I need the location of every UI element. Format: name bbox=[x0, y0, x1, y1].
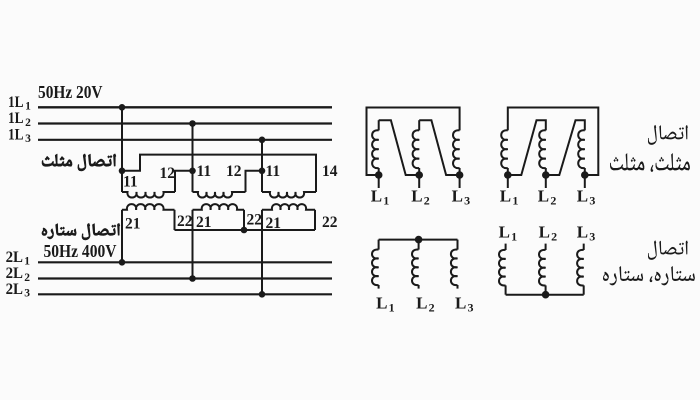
lead L1 of delta1 bbox=[378, 175, 380, 188]
coil W2 of delta1 bbox=[413, 130, 420, 168]
svg-text:12: 12 bbox=[226, 163, 242, 180]
wire star1 top bus bbox=[379, 239, 458, 241]
wire delta1 top link bbox=[367, 108, 460, 176]
wire 2L2 supply line bbox=[38, 277, 332, 279]
wire 1L3 supply line bbox=[38, 139, 332, 141]
label atesal mosalas (delta connection) bbox=[42, 154, 116, 171]
wire 2L1 supply line bbox=[38, 261, 332, 263]
coil W3 of delta1 bbox=[453, 130, 460, 168]
wire 22 of T2 down to neutral bus bbox=[243, 210, 245, 230]
coil W2 of star1 bbox=[418, 240, 420, 250]
lead L2 of delta2 bbox=[545, 175, 547, 188]
wire 1L1 supply line bbox=[38, 106, 332, 108]
svg-text:22: 22 bbox=[247, 212, 263, 229]
lead L3 of delta1 bbox=[459, 175, 461, 188]
coil W1 of star2 bbox=[505, 244, 507, 250]
node star point star2 bbox=[542, 291, 550, 299]
secondary winding T3 (terminals 21-22) bbox=[262, 204, 315, 210]
node L1 of delta1 bbox=[375, 171, 383, 179]
wire delta wrap from terminal 14 to node 11 of T1 bbox=[122, 155, 316, 192]
wire W1 top to L2 node (delta1) bbox=[379, 120, 420, 175]
node 11 of transformer T1 bbox=[119, 168, 126, 175]
node L2 of delta2 bbox=[542, 171, 550, 179]
primary winding T3 (terminals 11-14) bbox=[262, 192, 316, 198]
svg-text:L2: L2 bbox=[538, 187, 557, 208]
coil W3 of star1 bbox=[457, 240, 459, 250]
svg-text:11: 11 bbox=[266, 163, 281, 180]
wire from 1L2 down to primary U2 bbox=[192, 124, 194, 193]
svg-text:L3: L3 bbox=[577, 187, 596, 208]
lead L1 of delta2 bbox=[507, 175, 509, 188]
lead L2 of delta1 bbox=[418, 175, 420, 188]
secondary winding T2 (terminals 21-22) bbox=[193, 204, 245, 210]
wire 2L3 supply line bbox=[38, 293, 332, 295]
node star point junction bbox=[241, 227, 248, 234]
coil W2 of star2 bbox=[545, 244, 547, 250]
label atesal (connection) caption bottom bbox=[648, 240, 688, 259]
svg-text:L3: L3 bbox=[452, 187, 471, 208]
label atesal setare (star connection) bbox=[42, 223, 120, 239]
svg-text:L2: L2 bbox=[411, 187, 430, 208]
lead L3 of delta2 bbox=[584, 175, 586, 188]
svg-text:L3: L3 bbox=[577, 222, 596, 243]
primary winding T2 (terminals 11-12) bbox=[193, 192, 246, 198]
svg-text:12: 12 bbox=[160, 165, 176, 182]
wire from 1L3 down to primary U3 bbox=[261, 140, 263, 192]
svg-text:22: 22 bbox=[322, 214, 338, 231]
coil W2 of delta2 bbox=[539, 130, 546, 168]
primary winding T1 (terminals 11-12) bbox=[122, 192, 175, 198]
svg-text:11: 11 bbox=[123, 173, 138, 190]
node L2 of delta1 bbox=[415, 171, 423, 179]
wire 21 of T2 down to 2L2 bbox=[192, 210, 194, 279]
node L3 of delta2 bbox=[581, 171, 589, 179]
svg-text:L1: L1 bbox=[500, 187, 519, 208]
node star point star1 bbox=[415, 236, 423, 244]
secondary winding T1 (terminals 21-22) bbox=[122, 204, 175, 210]
node L1 of delta2 bbox=[504, 171, 512, 179]
wire 12 of T2 to 11 of T3 bbox=[246, 171, 263, 192]
node 11 of transformer T2 bbox=[189, 168, 196, 175]
wire from 1L1 down to primary U1 bbox=[121, 107, 123, 192]
svg-text:50Hz 20V: 50Hz 20V bbox=[38, 82, 103, 102]
node 11 of transformer T3 bbox=[259, 168, 266, 175]
svg-text:L2: L2 bbox=[416, 294, 435, 315]
wire 22 of T3 down to neutral bus bbox=[314, 210, 316, 230]
svg-text:1L3: 1L3 bbox=[8, 126, 31, 145]
wire 1L2 supply line bbox=[38, 122, 332, 124]
coil W3 of star2 bbox=[583, 244, 585, 250]
svg-text:L3: L3 bbox=[455, 294, 474, 315]
wire delta2 top link bbox=[508, 108, 599, 176]
node L3 of delta1 bbox=[456, 171, 464, 179]
wire 21 of T1 down to 2L1 bbox=[121, 210, 123, 262]
wire L1 node to W2 top (delta2) bbox=[508, 120, 546, 175]
wire W2 top to L3 node (delta1) bbox=[419, 120, 459, 175]
wire star neutral bus bbox=[175, 229, 316, 231]
svg-text:14: 14 bbox=[322, 163, 338, 180]
svg-text:21: 21 bbox=[266, 215, 282, 232]
svg-text:21: 21 bbox=[196, 214, 212, 231]
svg-text:11: 11 bbox=[197, 163, 212, 180]
wire star2 bottom bus bbox=[506, 294, 584, 296]
svg-text:50Hz 400V: 50Hz 400V bbox=[44, 241, 117, 261]
svg-text:L1: L1 bbox=[371, 187, 390, 208]
wire L2 node to W3 top (delta2) bbox=[546, 120, 585, 175]
svg-text:22: 22 bbox=[177, 213, 193, 230]
svg-text:L1: L1 bbox=[376, 294, 395, 315]
label atesal (connection) caption top bbox=[648, 125, 688, 145]
wire 12 of T1 to 11 of T2 bbox=[175, 171, 193, 192]
svg-text:L1: L1 bbox=[499, 222, 518, 243]
svg-text:21: 21 bbox=[125, 216, 141, 233]
wire 21 of T3 down to 2L3 bbox=[261, 210, 263, 294]
label setare, setare (star, star) caption bbox=[603, 266, 695, 285]
coil W1 of delta2 bbox=[501, 130, 508, 168]
coil W1 of star1 bbox=[378, 240, 380, 250]
coil W1 of delta1 bbox=[372, 130, 379, 168]
svg-text:L2: L2 bbox=[539, 222, 558, 243]
label mosalas, mosalas (delta, delta) caption bbox=[610, 153, 690, 172]
wire 22 of T1 down to neutral bus bbox=[174, 210, 176, 230]
coil W3 of delta2 bbox=[578, 130, 585, 168]
